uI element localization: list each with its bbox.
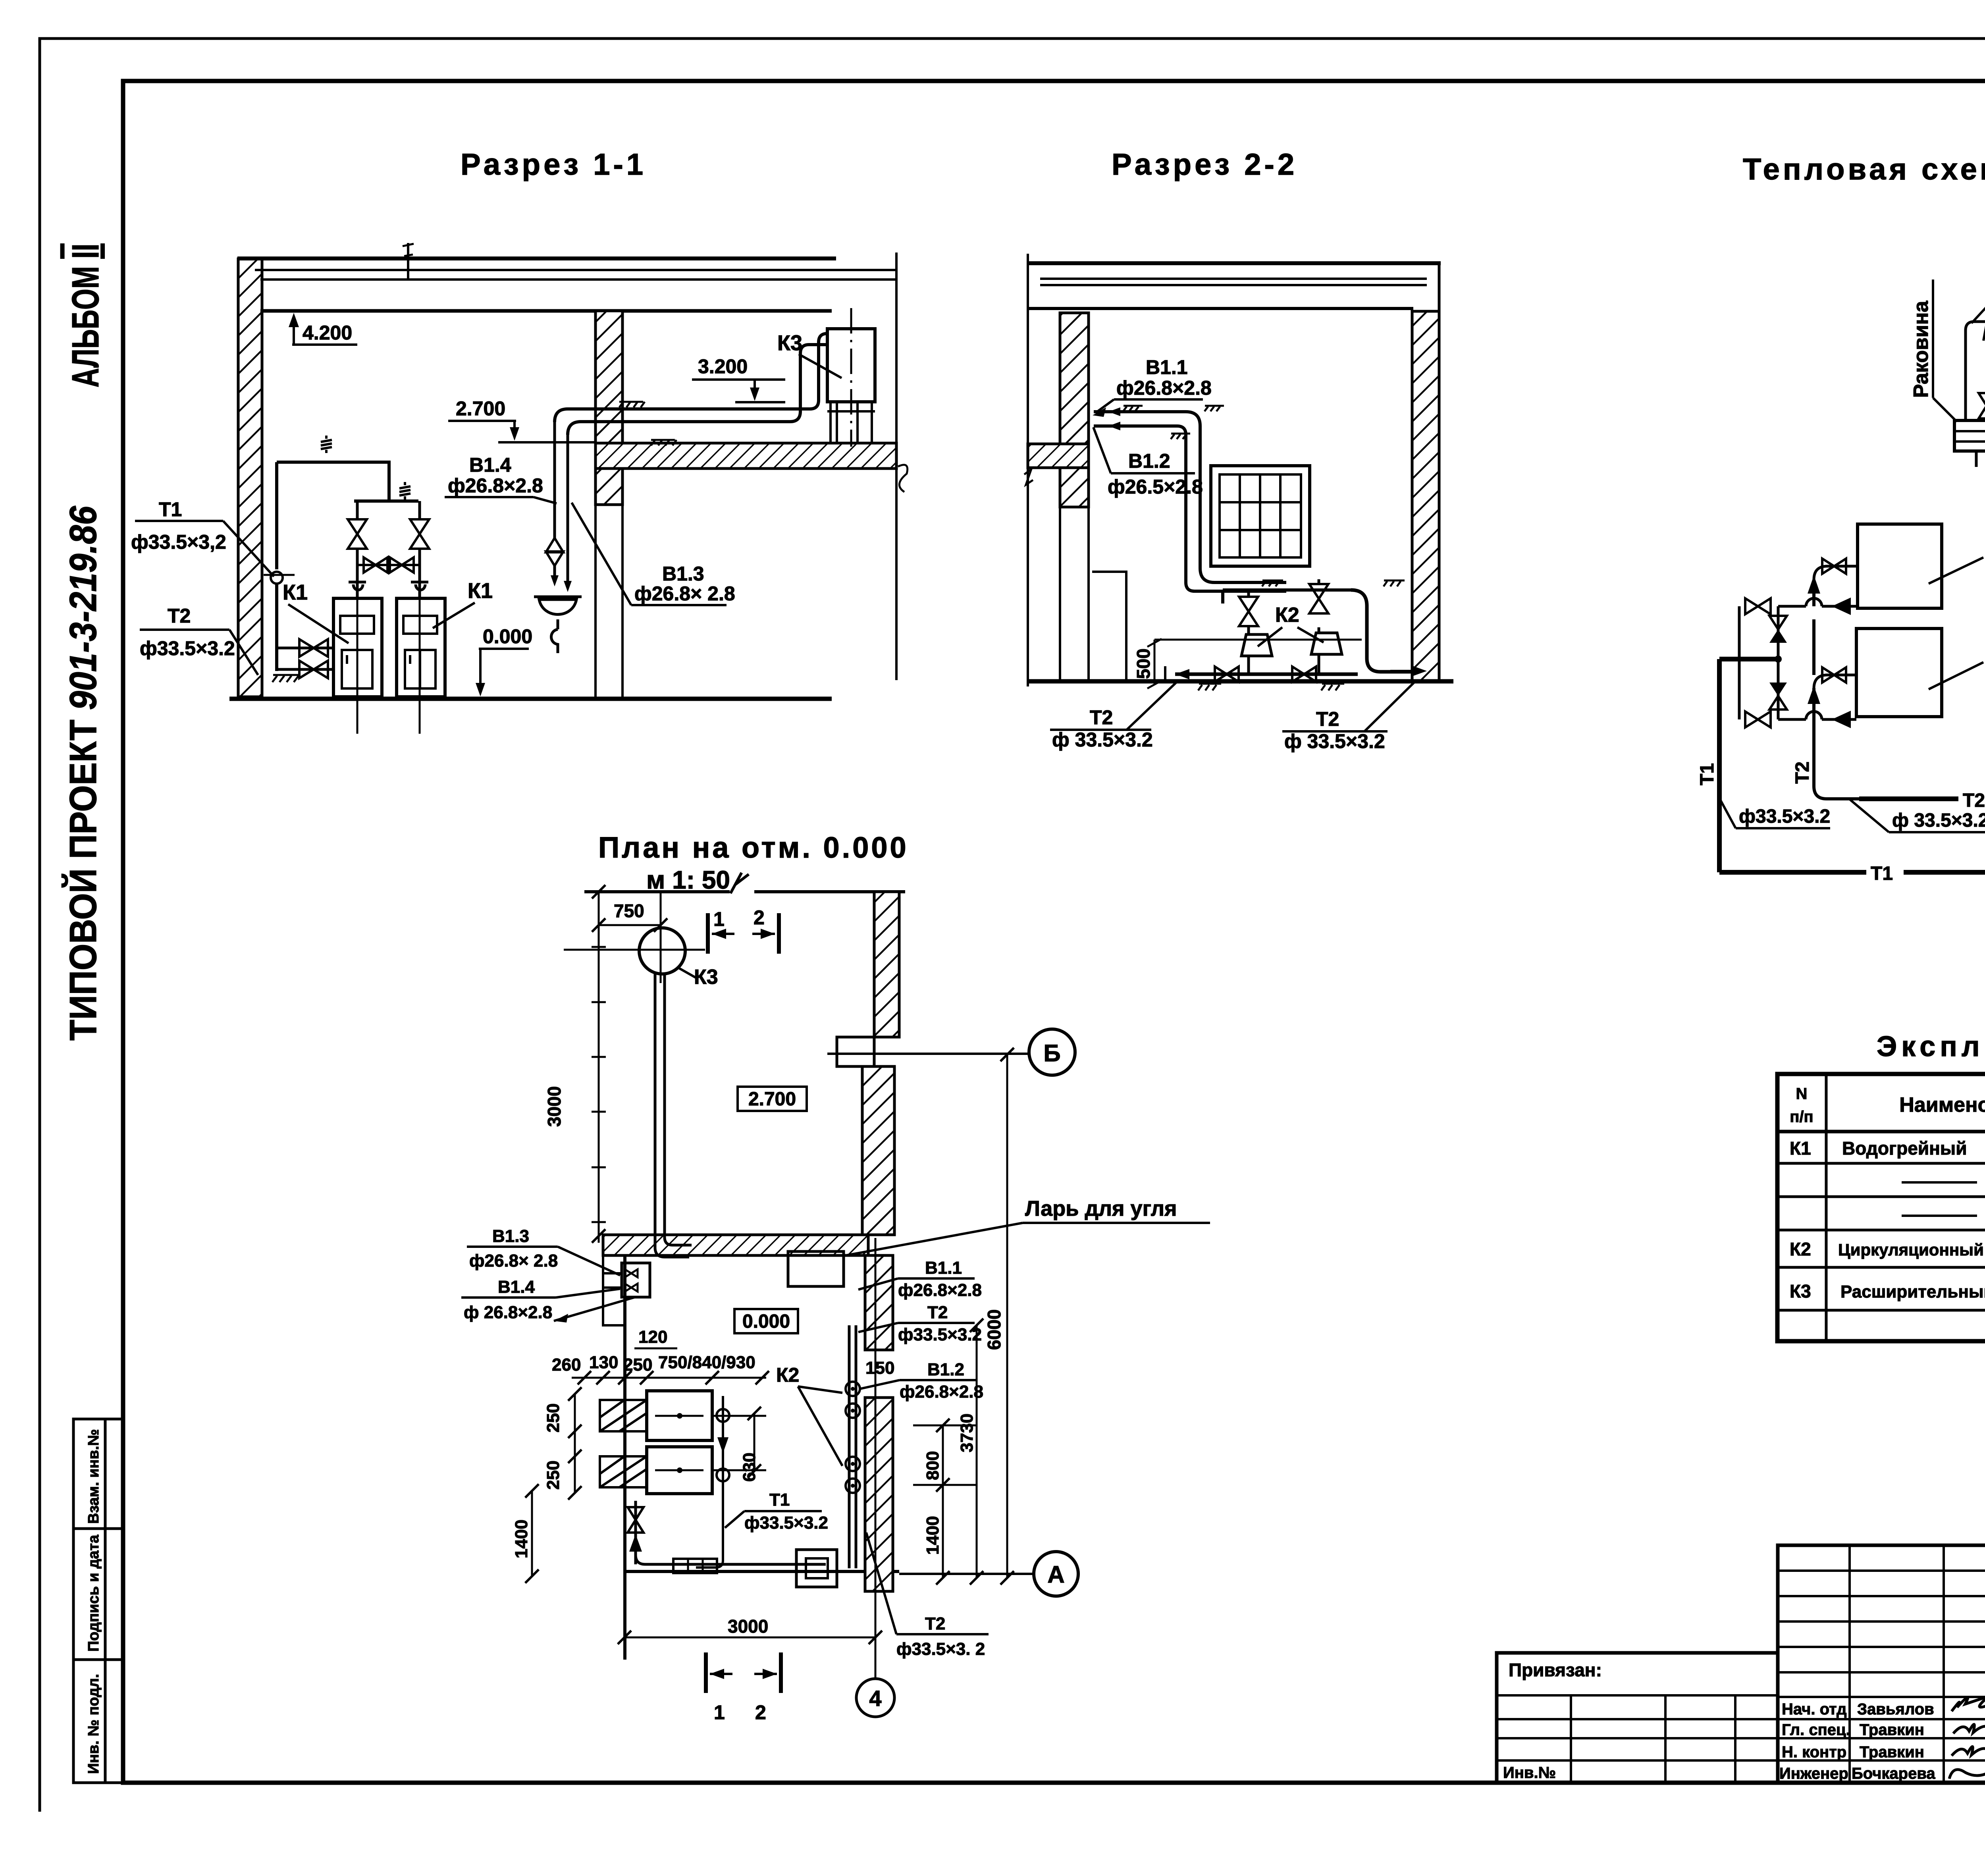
svg-text:1400: 1400 bbox=[512, 1519, 531, 1558]
middle wall door edges bbox=[594, 505, 597, 698]
svg-text:Травкин: Травкин bbox=[1860, 1721, 1924, 1739]
box2 bottom line with check bbox=[1778, 711, 1856, 719]
wall entry arrow right bbox=[1413, 666, 1427, 676]
svg-text:ф26.8×2.8: ф26.8×2.8 bbox=[898, 1280, 982, 1300]
svg-text:м 1: 50: м 1: 50 bbox=[646, 866, 730, 894]
door niche at B axis bbox=[837, 1037, 874, 1066]
cross connection valves between risers bbox=[357, 564, 420, 566]
svg-text:0.000: 0.000 bbox=[483, 625, 532, 648]
wall break mark bbox=[730, 873, 749, 893]
svg-text:ф33.5×3.2: ф33.5×3.2 bbox=[744, 1513, 828, 1533]
svg-text:К3: К3 bbox=[1790, 1281, 1811, 1301]
dim 3000 bottom bbox=[624, 1637, 875, 1639]
left vertical and bowties bbox=[1738, 606, 1741, 719]
safety fittings on boilers bbox=[349, 582, 366, 598]
floor drain bbox=[796, 1550, 837, 1587]
svg-text:К1: К1 bbox=[468, 579, 493, 603]
box1 bottom line with check bbox=[1778, 598, 1858, 606]
svg-text:Ларь для угля: Ларь для угля bbox=[1025, 1197, 1177, 1220]
2.700 boxed bbox=[738, 1087, 807, 1111]
boiler K1 no.1 bbox=[333, 598, 382, 697]
svg-text:В1.4: В1.4 bbox=[469, 454, 511, 476]
svg-text:Нач. отд: Нач. отд bbox=[1782, 1701, 1846, 1718]
svg-text:ф26.8× 2.8: ф26.8× 2.8 bbox=[469, 1251, 558, 1271]
tank legs bbox=[827, 402, 875, 443]
svg-text:150: 150 bbox=[865, 1358, 894, 1378]
dim 6000 vertical bbox=[1006, 1055, 1008, 1578]
svg-text:АЛЬБОМ II: АЛЬБОМ II bbox=[64, 244, 107, 388]
pipe anchors top bbox=[1123, 406, 1143, 411]
svg-text:Взам. инв.№: Взам. инв.№ bbox=[85, 1429, 102, 1524]
svg-text:Экспликация оборудования.: Экспликация оборудования. bbox=[1877, 1031, 1985, 1062]
left wall column hatched bbox=[1060, 313, 1089, 507]
risers above boilers bbox=[357, 501, 420, 582]
svg-text:ф 33.5×3.2: ф 33.5×3.2 bbox=[1052, 729, 1153, 751]
valve boiler2 bbox=[410, 519, 429, 549]
bottom piping bbox=[634, 1501, 637, 1564]
svg-text:ф26.5×2.8: ф26.5×2.8 bbox=[1108, 476, 1203, 498]
sink tank bbox=[1954, 420, 1985, 451]
svg-text:Раковина: Раковина bbox=[1910, 301, 1933, 398]
box1 top inlet with valve bbox=[1814, 566, 1858, 580]
svg-text:ф26.8×2.8: ф26.8×2.8 bbox=[448, 474, 543, 497]
svg-text:Т2: Т2 bbox=[1316, 708, 1339, 730]
0.000 boxed bbox=[734, 1309, 798, 1333]
left wall lower room bbox=[623, 1255, 626, 1660]
svg-text:Привязан:: Привязан: bbox=[1509, 1660, 1602, 1680]
svg-text:К2: К2 bbox=[1790, 1239, 1811, 1259]
svg-text:ф33.5×3.2: ф33.5×3.2 bbox=[898, 1325, 982, 1344]
svg-text:3000: 3000 bbox=[544, 1086, 565, 1127]
svg-text:Т1: Т1 bbox=[159, 498, 182, 521]
spring squiggle 1 bbox=[321, 436, 332, 453]
axis 4 circle bbox=[856, 1679, 894, 1717]
K3 down pipes bbox=[655, 974, 689, 1257]
svg-text:3.200: 3.200 bbox=[698, 355, 748, 378]
svg-text:Н. контр: Н. контр bbox=[1782, 1743, 1846, 1761]
svg-text:План на отм. 0.000: План на отм. 0.000 bbox=[598, 831, 909, 864]
left box privyazan bbox=[1497, 1653, 1778, 1783]
svg-text:Т2: Т2 bbox=[168, 605, 191, 627]
boiler 1 plan bbox=[647, 1391, 712, 1440]
svg-text:Т2: Т2 bbox=[927, 1303, 948, 1322]
ceiling slab bbox=[1028, 261, 1441, 265]
right wall lower part of upper room bbox=[862, 1066, 894, 1235]
discharge riser down to wall exit bbox=[1351, 590, 1412, 672]
svg-text:3730: 3730 bbox=[957, 1413, 977, 1452]
svg-text:Разрез 2-2: Разрез 2-2 bbox=[1112, 148, 1297, 181]
right wall edge bbox=[895, 253, 898, 680]
svg-text:Травкин: Травкин bbox=[1860, 1743, 1924, 1761]
svg-text:Наименование: Наименование bbox=[1899, 1093, 1985, 1116]
pump axis line bbox=[1154, 639, 1362, 641]
svg-text:Т2: Т2 bbox=[1792, 762, 1813, 784]
floor anchor bbox=[272, 675, 299, 682]
svg-text:Т2: Т2 bbox=[1963, 790, 1985, 811]
svg-text:ТИПОВОЙ ПРОЕКТ 901-3-219.86: ТИПОВОЙ ПРОЕКТ 901-3-219.86 bbox=[62, 505, 104, 1041]
vent pipe through roof bbox=[407, 243, 409, 280]
svg-text:Т2: Т2 bbox=[925, 1614, 945, 1633]
axis B bbox=[827, 1053, 1029, 1055]
discharge manifold bbox=[1223, 588, 1351, 592]
svg-text:А: А bbox=[1047, 1561, 1064, 1588]
wall below slab bbox=[1087, 468, 1090, 681]
svg-text:0.000: 0.000 bbox=[742, 1311, 790, 1332]
svg-text:250: 250 bbox=[543, 1461, 563, 1490]
wall left hatched bbox=[238, 259, 262, 697]
svg-text:В1.1: В1.1 bbox=[1146, 356, 1188, 378]
svg-text:250: 250 bbox=[623, 1355, 652, 1375]
pump unit 1 bbox=[1247, 656, 1250, 674]
bottom wall bbox=[625, 1570, 899, 1573]
margin stamp box bbox=[73, 1419, 123, 1783]
valve boiler1 bbox=[348, 519, 367, 549]
svg-text:Инв. № подл.: Инв. № подл. bbox=[85, 1674, 102, 1774]
ditto row 3 bbox=[1902, 1215, 1985, 1217]
svg-text:п/п: п/п bbox=[1790, 1108, 1813, 1126]
risers B1.4 B1.3 bbox=[555, 422, 568, 582]
right wall upper hatched bbox=[874, 892, 899, 1037]
pipe anchors bbox=[619, 402, 645, 407]
svg-text:800: 800 bbox=[923, 1451, 942, 1480]
bottom left valves bbox=[277, 647, 333, 650]
svg-text:ф33.5×3.2: ф33.5×3.2 bbox=[1739, 806, 1830, 827]
right wall hatched bbox=[1412, 311, 1439, 681]
svg-text:Бочкарева: Бочкарева bbox=[1852, 1765, 1935, 1782]
svg-text:ф33.5×3.2: ф33.5×3.2 bbox=[140, 637, 235, 659]
svg-text:120: 120 bbox=[638, 1327, 667, 1347]
svg-text:ф33.5×3. 2: ф33.5×3. 2 bbox=[896, 1639, 985, 1659]
section marks 1-2 bottom bbox=[704, 1652, 708, 1693]
top exterior wall bbox=[584, 890, 730, 893]
svg-text:1: 1 bbox=[714, 1701, 725, 1724]
svg-text:В1.2: В1.2 bbox=[927, 1360, 964, 1379]
axis A bbox=[899, 1573, 1034, 1575]
svg-text:750/840/930: 750/840/930 bbox=[658, 1353, 755, 1372]
svg-text:В1.1: В1.1 bbox=[925, 1258, 962, 1278]
pump unit 2 bbox=[1318, 654, 1320, 674]
svg-text:В1.3: В1.3 bbox=[492, 1226, 529, 1246]
boiler K1 box 2 bbox=[1856, 629, 1942, 717]
svg-text:ф33.5×3,2: ф33.5×3,2 bbox=[131, 531, 226, 553]
svg-text:ф26.8×2.8: ф26.8×2.8 bbox=[1116, 377, 1212, 399]
floor bbox=[1028, 679, 1453, 684]
suction valves bbox=[1215, 667, 1239, 682]
pipe end arrows at wall bbox=[1108, 407, 1120, 430]
left dim ladder 3000 bbox=[598, 892, 600, 1243]
svg-text:Т1: Т1 bbox=[1697, 763, 1718, 785]
overhead pipes bbox=[277, 462, 418, 501]
middle wall column hatched bbox=[595, 311, 622, 505]
svg-text:Циркуляционный электронасос: Циркуляционный электронасос bbox=[1838, 1240, 1985, 1259]
section marks 1-2 top bbox=[706, 913, 710, 954]
svg-text:N: N bbox=[1796, 1085, 1808, 1103]
svg-text:Т1: Т1 bbox=[1871, 863, 1893, 884]
svg-text:ф26.8× 2.8: ф26.8× 2.8 bbox=[634, 582, 735, 605]
svg-text:Гл. спец.: Гл. спец. bbox=[1782, 1721, 1850, 1739]
svg-text:К1: К1 bbox=[283, 580, 308, 604]
svg-text:Б: Б bbox=[1043, 1040, 1060, 1066]
valve on B1.4 riser bbox=[546, 538, 563, 566]
flue boxes hatched bbox=[600, 1400, 647, 1487]
svg-text:Инженер: Инженер bbox=[1779, 1765, 1848, 1782]
spring squiggle 2 bbox=[399, 482, 410, 499]
break mark bbox=[1024, 469, 1033, 485]
boiler 2 plan bbox=[647, 1447, 712, 1494]
svg-text:К2: К2 bbox=[776, 1364, 799, 1386]
suction end arrow bbox=[1175, 669, 1189, 679]
window bbox=[1211, 466, 1310, 566]
svg-text:250: 250 bbox=[543, 1404, 563, 1433]
svg-text:В1.3: В1.3 bbox=[662, 563, 704, 585]
expansion tank K3 bbox=[827, 329, 875, 402]
svg-text:Т1: Т1 bbox=[769, 1490, 790, 1510]
wall left inner edge bbox=[261, 311, 264, 682]
pipes to tank bbox=[555, 334, 827, 422]
boiler K1 box 1 bbox=[1858, 524, 1942, 608]
valve on sink pipe bbox=[1979, 393, 1985, 418]
pedestal bbox=[1092, 572, 1126, 681]
svg-text:ф 26.8×2.8: ф 26.8×2.8 bbox=[464, 1303, 552, 1322]
svg-text:130: 130 bbox=[589, 1353, 618, 1372]
floor line bbox=[229, 697, 832, 701]
svg-text:1400: 1400 bbox=[923, 1516, 942, 1555]
boiler riser circles and T1 drop bbox=[717, 1409, 729, 1422]
sink feed pipes bbox=[1966, 322, 1985, 420]
svg-text:ф 33.5×3.2: ф 33.5×3.2 bbox=[1892, 810, 1985, 831]
svg-text:К3: К3 bbox=[694, 966, 718, 989]
svg-text:Инв.№: Инв.№ bbox=[1503, 1764, 1556, 1782]
axis 4 line bbox=[875, 1238, 877, 1679]
left cluster bbox=[1777, 606, 1780, 719]
slab shelf left bbox=[1028, 444, 1089, 468]
pump suction line bbox=[1175, 673, 1358, 676]
svg-text:4.200: 4.200 bbox=[303, 322, 352, 344]
svg-text:Т2: Т2 bbox=[1090, 706, 1113, 729]
svg-text:В1.4: В1.4 bbox=[498, 1277, 535, 1297]
svg-text:Тепловая схема котельной: Тепловая схема котельной bbox=[1743, 152, 1985, 186]
svg-text:4: 4 bbox=[869, 1686, 881, 1711]
svg-text:500: 500 bbox=[1133, 648, 1154, 679]
svg-text:В1.2: В1.2 bbox=[1128, 450, 1170, 472]
svg-text:1: 1 bbox=[713, 908, 725, 930]
svg-text:260: 260 bbox=[552, 1355, 581, 1375]
svg-text:ф26.8×2.8: ф26.8×2.8 bbox=[900, 1382, 983, 1402]
svg-text:3000: 3000 bbox=[728, 1616, 768, 1637]
meter box B1.3/B1.4 bbox=[622, 1263, 650, 1297]
T1 main bbox=[1719, 657, 1778, 661]
svg-text:2: 2 bbox=[755, 1701, 766, 1724]
discharge anchors bbox=[1262, 580, 1283, 586]
T2 main bottom bbox=[1859, 796, 1985, 801]
svg-text:2.700: 2.700 bbox=[456, 397, 505, 420]
manifold riser T2 bbox=[1814, 714, 1859, 799]
left section edge bbox=[1027, 254, 1029, 686]
svg-text:750: 750 bbox=[614, 900, 644, 921]
ditto row 2 bbox=[1902, 1181, 1985, 1184]
coal bin bbox=[788, 1251, 844, 1286]
svg-text:К2: К2 bbox=[1275, 603, 1299, 627]
sink bbox=[534, 597, 582, 615]
svg-text:2: 2 bbox=[754, 906, 765, 929]
pipe B1.1/B1.2 Z-run bbox=[1094, 426, 1286, 591]
svg-text:Расширительный: Расширительный bbox=[1840, 1282, 1985, 1301]
level mark 4.200 bbox=[293, 318, 295, 344]
right wall lower room hatched bbox=[865, 1255, 893, 1350]
K3 tank plan bbox=[639, 928, 685, 974]
svg-text:ф 33.5×3.2: ф 33.5×3.2 bbox=[1284, 730, 1385, 752]
gauge on wall pipe bbox=[271, 572, 283, 584]
interior wall band hatched bbox=[603, 1235, 868, 1255]
svg-text:Водогрейный: Водогрейный bbox=[1842, 1138, 1967, 1159]
ceiling slab bbox=[237, 256, 836, 260]
floor anchors bbox=[1198, 684, 1221, 690]
svg-text:Завьялов: Завьялов bbox=[1857, 1701, 1934, 1718]
right pipe risers with pumps K2 bbox=[848, 1325, 851, 1568]
svg-text:2.700: 2.700 bbox=[748, 1089, 796, 1110]
svg-text:Разрез 1-1: Разрез 1-1 bbox=[461, 148, 646, 181]
box2 top inlet with valve bbox=[1814, 675, 1856, 688]
svg-text:К1: К1 bbox=[1790, 1138, 1811, 1159]
boiler K1 no.2 bbox=[397, 598, 445, 697]
signatures bbox=[1952, 1696, 1985, 1711]
svg-text:6000: 6000 bbox=[984, 1309, 1004, 1350]
slab 2.700 right hatched bbox=[595, 443, 896, 469]
svg-text:К3: К3 bbox=[777, 331, 802, 355]
svg-text:Подпись и дата: Подпись и дата bbox=[85, 1535, 102, 1652]
narrow staff table bbox=[1778, 1545, 1985, 1783]
